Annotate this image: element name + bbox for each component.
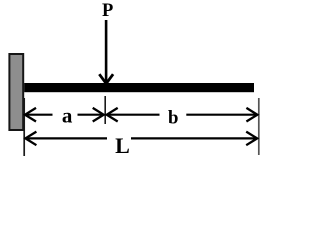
svg-text:b: b (168, 108, 178, 129)
svg-text:a: a (62, 104, 73, 128)
svg-text:L: L (115, 133, 130, 158)
svg-text:P: P (102, 1, 113, 21)
